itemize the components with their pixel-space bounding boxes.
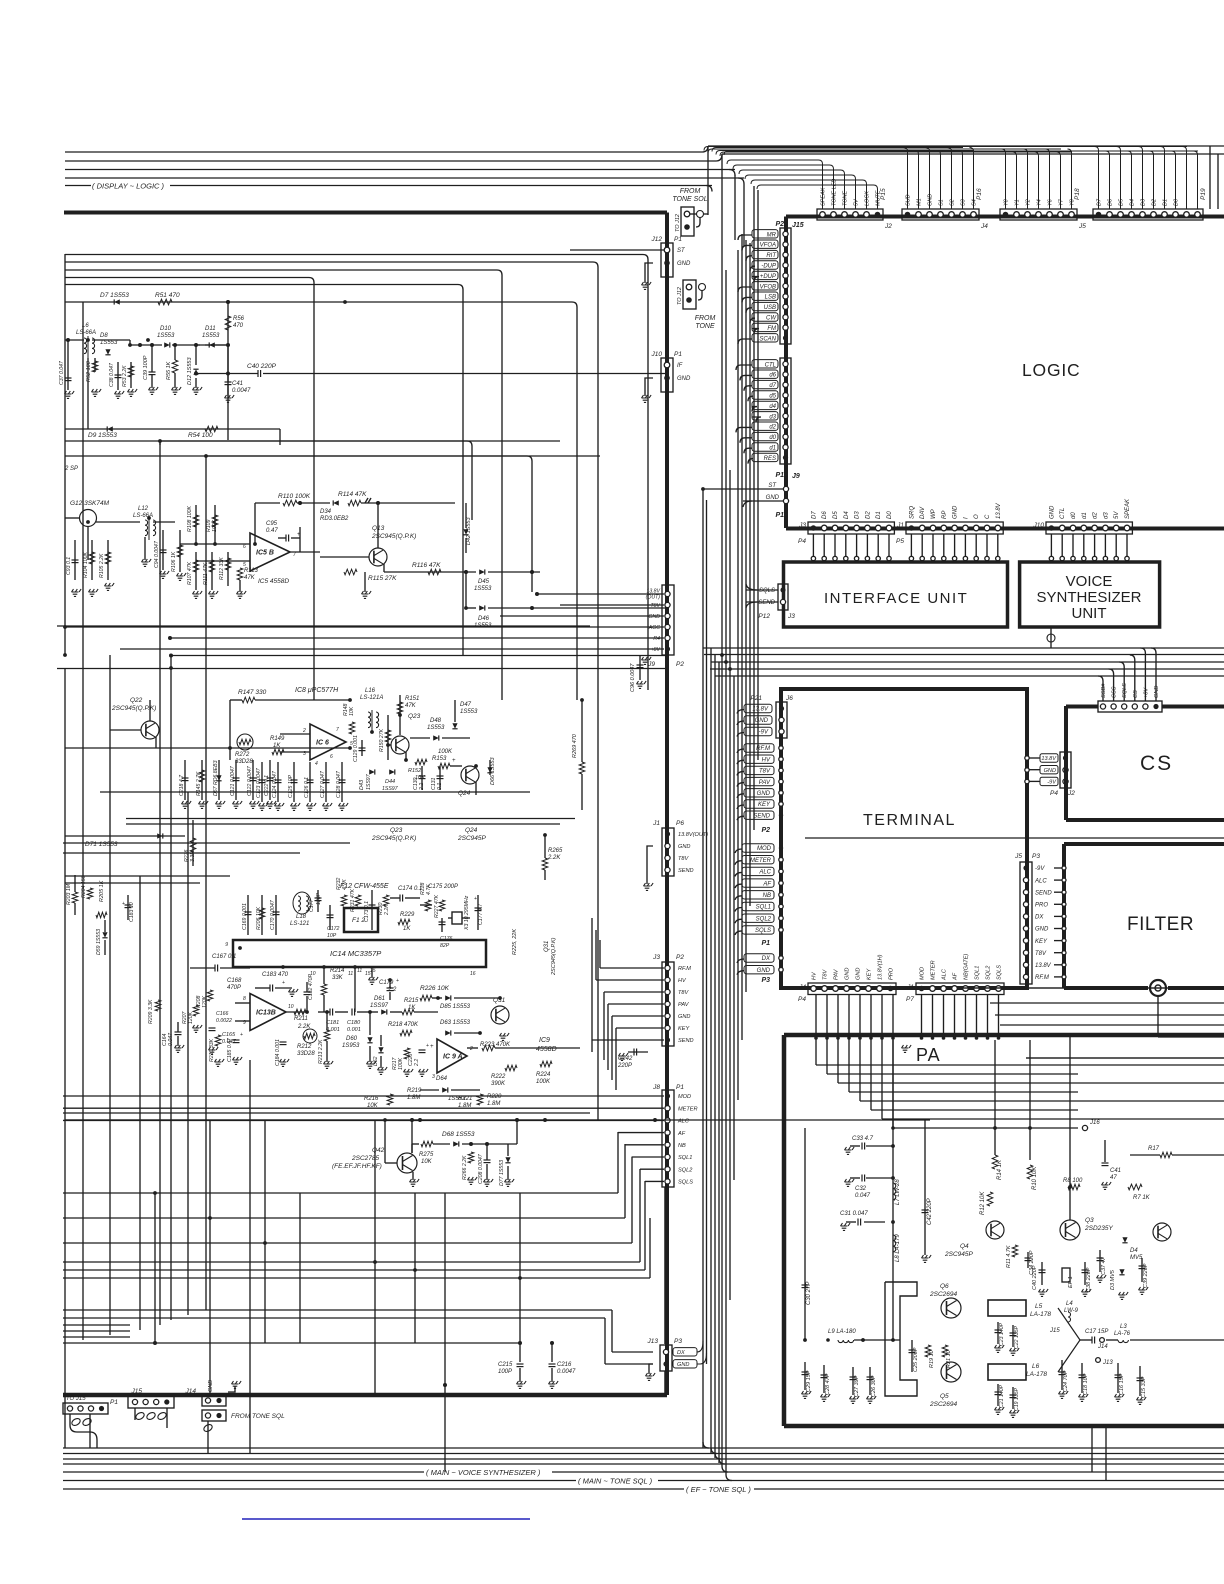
op-amp IC6 xyxy=(280,724,353,767)
svg-text:RF.M: RF.M xyxy=(1035,975,1049,981)
capacitor C38 220P xyxy=(1084,1262,1086,1285)
svg-text:IF: IF xyxy=(677,363,683,369)
svg-text:KEY: KEY xyxy=(758,802,771,808)
svg-text:GND: GND xyxy=(856,968,862,980)
wire left bus rows xyxy=(63,441,660,1120)
svg-text:C127 0.047: C127 0.047 xyxy=(320,770,326,798)
svg-text:2.2K: 2.2K xyxy=(384,904,390,916)
svg-text:HV: HV xyxy=(812,971,818,980)
resistor R275 10K xyxy=(419,1141,434,1165)
svg-text:1S553: 1S553 xyxy=(202,333,220,339)
inductor L8 LA-179 xyxy=(893,1235,896,1252)
C179 R226 D65 xyxy=(379,978,509,1040)
capacitor C31 0.047 xyxy=(858,1219,861,1226)
svg-text:GND: GND xyxy=(1049,505,1055,519)
resistor R116 47K xyxy=(412,562,441,575)
svg-text:J2: J2 xyxy=(884,223,892,230)
svg-text:J13: J13 xyxy=(1102,1360,1113,1366)
resistor R19 10 xyxy=(925,1345,931,1357)
svg-text:Y4: Y4 xyxy=(1037,199,1043,206)
svg-text:INTERFACE UNIT: INTERFACE UNIT xyxy=(824,590,968,607)
svg-text:P4: P4 xyxy=(798,996,806,1003)
svg-text:PRO: PRO xyxy=(1035,903,1048,909)
diode D10 1S553 xyxy=(130,326,200,348)
capacitor C41 47 xyxy=(1104,1140,1106,1162)
transistor G12 3SK74M xyxy=(65,500,140,560)
svg-text:J5: J5 xyxy=(1014,853,1022,860)
svg-text:D1: D1 xyxy=(1163,199,1169,206)
svg-text:P5: P5 xyxy=(896,538,904,545)
svg-text:SSB#: SSB# xyxy=(1101,683,1107,698)
inductor L7 LW-28 xyxy=(893,1183,896,1200)
svg-text:D2: D2 xyxy=(865,511,871,519)
diode D8 1S553 xyxy=(100,333,118,355)
svg-text:R19 10: R19 10 xyxy=(929,1349,935,1368)
svg-text:P4: P4 xyxy=(798,538,806,545)
TERMINAL unit border xyxy=(781,689,1027,988)
svg-text:( EF ~ TONE SQL ): ( EF ~ TONE SQL ) xyxy=(686,1485,751,1494)
resistor R150 27K xyxy=(379,715,391,760)
svg-text:R272: R272 xyxy=(235,752,250,758)
svg-text:D5: D5 xyxy=(833,511,839,519)
resistor R269 470 xyxy=(572,700,585,810)
svg-text:C167 0.1: C167 0.1 xyxy=(212,954,236,960)
svg-text:C15 33P: C15 33P xyxy=(1141,1376,1147,1398)
connector J10 strip bottom xyxy=(1033,498,1133,561)
capacitor C30 27P xyxy=(802,1285,809,1288)
inductor L16 LS-121A xyxy=(360,688,383,732)
diode D71 xyxy=(65,833,185,848)
svg-text:d5: d5 xyxy=(769,394,776,400)
svg-text:P3: P3 xyxy=(1032,853,1040,860)
svg-text:R56: R56 xyxy=(233,316,245,322)
svg-text:R147 330: R147 330 xyxy=(238,689,267,696)
svg-text:R224: R224 xyxy=(536,1072,551,1078)
connector J3 strip bottom xyxy=(798,511,894,561)
svg-text:L8 LA-179: L8 LA-179 xyxy=(895,1234,901,1262)
svg-text:J16: J16 xyxy=(1089,1120,1100,1126)
svg-text:d1: d1 xyxy=(1082,512,1088,519)
connector J15 data header xyxy=(736,358,791,464)
svg-text:1.8M: 1.8M xyxy=(407,1095,420,1101)
svg-text:3.3M: 3.3M xyxy=(190,850,196,862)
resistor R14 1K xyxy=(994,1040,996,1155)
svg-text:TO J12: TO J12 xyxy=(677,287,683,305)
svg-text:R111 47K: R111 47K xyxy=(203,562,209,585)
svg-text:C179: C179 xyxy=(379,980,394,986)
svg-text:C40 220P: C40 220P xyxy=(247,363,277,370)
svg-text:P2: P2 xyxy=(761,827,770,834)
transistor Q42 xyxy=(332,1118,419,1186)
svg-text:D77 1S553: D77 1S553 xyxy=(499,1160,505,1186)
svg-text:CTL: CTL xyxy=(1060,508,1066,519)
capacitor C42 220P xyxy=(924,1120,926,1255)
connector J16 xyxy=(1082,1125,1087,1130)
connector J2 strip xyxy=(727,160,892,230)
resistor R148 10K xyxy=(343,703,355,734)
svg-text:2SC945(Q.P.K): 2SC945(Q.P.K) xyxy=(371,835,416,842)
svg-text:MOD: MOD xyxy=(920,967,926,980)
svg-text:2SD235Y: 2SD235Y xyxy=(1084,1225,1113,1232)
capacitors C29 C28 C27 C26 xyxy=(804,1362,806,1390)
svg-text:X3 10.295MHz: X3 10.295MHz xyxy=(464,895,470,931)
svg-text:100K: 100K xyxy=(212,519,218,532)
svg-text:+DUP: +DUP xyxy=(760,274,776,280)
svg-text:C21 140P: C21 140P xyxy=(999,1384,1005,1408)
svg-text:C177 4.7: C177 4.7 xyxy=(478,903,484,925)
svg-text:P4: P4 xyxy=(1050,790,1058,797)
svg-text:P1: P1 xyxy=(110,1399,118,1406)
caps C130 C131 xyxy=(413,766,444,791)
svg-text:J4: J4 xyxy=(980,223,988,230)
svg-text:15: 15 xyxy=(370,968,376,974)
svg-text:D43: D43 xyxy=(359,779,365,790)
svg-text:VOICE: VOICE xyxy=(1066,573,1113,590)
svg-text:P3: P3 xyxy=(674,1338,682,1345)
svg-text:PAV: PAV xyxy=(834,968,840,980)
svg-text:33D28: 33D28 xyxy=(297,1051,315,1057)
op-amp IC5B xyxy=(180,533,320,585)
svg-text:C32: C32 xyxy=(855,1186,867,1192)
svg-text:SQLS: SQLS xyxy=(1122,683,1128,698)
svg-text:GND: GND xyxy=(677,1362,689,1368)
connector J- strip xyxy=(704,147,1207,221)
svg-text:J1: J1 xyxy=(896,522,904,529)
svg-text:C128 0.047: C128 0.047 xyxy=(336,770,342,798)
svg-text:2.2: 2.2 xyxy=(419,783,425,791)
svg-text:PAV: PAV xyxy=(759,780,771,786)
svg-text:2SC945(Q.P.K): 2SC945(Q.P.K) xyxy=(551,937,557,976)
svg-text:1S553: 1S553 xyxy=(474,586,492,592)
transistor Q2 xyxy=(1153,1223,1171,1241)
svg-text:J2: J2 xyxy=(1067,790,1075,797)
svg-text:J5: J5 xyxy=(1078,223,1086,230)
svg-text:R220: R220 xyxy=(487,1094,502,1100)
svg-text:LOGIC: LOGIC xyxy=(1022,360,1080,380)
svg-text:-9V: -9V xyxy=(1047,780,1057,786)
svg-text:d6: d6 xyxy=(769,373,776,379)
svg-text:ST: ST xyxy=(768,483,777,489)
svg-text:Q42: Q42 xyxy=(372,1147,385,1154)
svg-text:( MAIN ~ VOICE SYNTHESIZER ): ( MAIN ~ VOICE SYNTHESIZER ) xyxy=(426,1468,541,1477)
svg-text:R216: R216 xyxy=(364,1096,379,1102)
svg-text:-9V: -9V xyxy=(759,730,769,736)
svg-text:C242: C242 xyxy=(618,1056,633,1062)
svg-text:0.0022: 0.0022 xyxy=(216,1018,232,1024)
capacitor C40 220P xyxy=(196,363,667,377)
connector J4 P4 strip xyxy=(798,954,896,1003)
connector J5 strip xyxy=(708,149,1086,230)
svg-text:GND: GND xyxy=(677,261,691,267)
connector P1 flags xyxy=(735,844,783,947)
svg-text:4.7K: 4.7K xyxy=(342,879,348,890)
svg-text:P21: P21 xyxy=(750,695,762,702)
svg-text:10P: 10P xyxy=(327,933,337,939)
resistor R153 100K xyxy=(432,749,462,769)
svg-text:L12: L12 xyxy=(138,506,149,512)
svg-text:Q6: Q6 xyxy=(940,1283,949,1290)
svg-text:d2: d2 xyxy=(769,425,776,431)
svg-text:D0: D0 xyxy=(887,511,893,519)
connector J12 P1 xyxy=(570,236,691,289)
svg-text:IC14 MC3357P: IC14 MC3357P xyxy=(330,949,381,958)
svg-text:PAV: PAV xyxy=(678,1002,690,1008)
svg-text:R205 1K: R205 1K xyxy=(99,880,105,902)
svg-text:120P: 120P xyxy=(316,892,322,905)
wire PA feed xyxy=(892,1040,894,1340)
svg-text:D46: D46 xyxy=(478,616,490,622)
svg-text:C169 0.001: C169 0.001 xyxy=(242,903,248,930)
svg-text:+: + xyxy=(430,1044,434,1050)
svg-text:P6: P6 xyxy=(676,820,684,827)
svg-text:C181: C181 xyxy=(326,1020,339,1026)
svg-text:HV: HV xyxy=(678,978,687,984)
svg-text:Q5: Q5 xyxy=(940,1393,949,1400)
connector J15 P1 bottom xyxy=(110,1388,174,1428)
svg-text:D4: D4 xyxy=(844,511,850,519)
svg-text:R275: R275 xyxy=(419,1152,434,1158)
svg-text:11: 11 xyxy=(348,971,353,977)
svg-text:C17 15P: C17 15P xyxy=(1085,1329,1108,1335)
svg-text:R54 100: R54 100 xyxy=(188,432,213,439)
svg-text:L16: L16 xyxy=(365,688,376,694)
svg-text:LA-178: LA-178 xyxy=(1026,1371,1047,1378)
svg-text:C31 0.047: C31 0.047 xyxy=(840,1211,868,1217)
svg-text:D3: D3 xyxy=(855,511,861,519)
svg-text:TERMINAL: TERMINAL xyxy=(863,812,956,829)
svg-text:C177: C177 xyxy=(309,898,315,912)
transformer L12 LS-66A xyxy=(133,506,175,566)
svg-text:D67 RD6.8EB3: D67 RD6.8EB3 xyxy=(213,760,219,796)
svg-text:120K: 120K xyxy=(188,1011,194,1024)
svg-text:C218 4.7: C218 4.7 xyxy=(179,774,185,796)
wire row 441 456 xyxy=(160,441,532,592)
svg-text:CW: CW xyxy=(766,316,777,322)
diodes D43 D44 xyxy=(359,769,399,792)
svg-text:C123 0.0047: C123 0.0047 xyxy=(256,767,262,798)
component EP1 xyxy=(1062,1268,1070,1282)
svg-text:P1: P1 xyxy=(775,512,784,519)
svg-text:SQL2: SQL2 xyxy=(986,965,992,980)
svg-text:P1: P1 xyxy=(674,236,682,243)
svg-text:C176: C176 xyxy=(440,936,453,942)
svg-text:33K: 33K xyxy=(332,975,344,981)
svg-text:J3: J3 xyxy=(787,613,795,620)
svg-text:AF: AF xyxy=(953,972,959,981)
svg-text:13.8V: 13.8V xyxy=(752,707,769,713)
svg-text:D4: D4 xyxy=(1130,199,1136,206)
svg-text:1SS97: 1SS97 xyxy=(370,1003,389,1009)
svg-text:C25 200P: C25 200P xyxy=(913,1347,919,1372)
svg-text:R10 10K: R10 10K xyxy=(1032,1166,1038,1190)
svg-text:ST: ST xyxy=(677,248,686,254)
svg-text:TO J12: TO J12 xyxy=(675,214,681,232)
svg-text:IC9: IC9 xyxy=(539,1037,550,1044)
svg-text:TO J15: TO J15 xyxy=(66,1396,86,1402)
connector FROM TONE SOL top xyxy=(672,188,708,236)
svg-text:LW-9: LW-9 xyxy=(1064,1308,1079,1314)
svg-text:R112 33K: R112 33K xyxy=(219,557,225,580)
svg-text:IC 6: IC 6 xyxy=(316,740,329,747)
svg-text:R106 1K: R106 1K xyxy=(171,551,177,572)
resistor R10 10K xyxy=(1029,1040,1031,1160)
svg-text:R215: R215 xyxy=(404,998,419,1004)
svg-text:D11: D11 xyxy=(205,326,216,332)
svg-text:J10: J10 xyxy=(651,351,663,358)
svg-text:J4: J4 xyxy=(798,984,806,991)
wire left verticals xyxy=(65,254,250,1453)
svg-text:IC 9 A: IC 9 A xyxy=(443,1054,463,1061)
svg-text:1.8M: 1.8M xyxy=(458,1103,471,1109)
svg-text:SQL2: SQL2 xyxy=(756,916,772,922)
svg-text:C22 135P: C22 135P xyxy=(1014,1325,1020,1349)
svg-text:2 SP: 2 SP xyxy=(64,466,78,472)
svg-text:GND: GND xyxy=(677,376,691,382)
svg-text:J15: J15 xyxy=(131,1388,143,1395)
capacitor C38 0.047 xyxy=(109,362,124,398)
wire filter bottom bus xyxy=(990,1003,1224,1037)
connector CS strip xyxy=(1098,648,1162,712)
capacitor C34 220P xyxy=(1027,1252,1029,1268)
capacitor C94 0.0047 xyxy=(154,530,169,578)
svg-text:R206 10K: R206 10K xyxy=(256,906,262,930)
svg-text:10K: 10K xyxy=(421,1159,433,1165)
svg-text:0.001: 0.001 xyxy=(347,1027,361,1033)
svg-text:C180: C180 xyxy=(347,1020,361,1026)
svg-text:1SS97: 1SS97 xyxy=(366,773,372,790)
svg-text:C96 0.0047: C96 0.0047 xyxy=(630,663,636,692)
svg-text:AGC: AGC xyxy=(648,625,660,631)
wire top cluster joins xyxy=(88,340,228,445)
svg-text:SPEAK: SPEAK xyxy=(1125,498,1131,519)
svg-text:0.047: 0.047 xyxy=(168,1032,174,1046)
svg-text:1S553: 1S553 xyxy=(427,725,445,731)
filter F12 CFW-455E xyxy=(340,883,389,932)
svg-text:P19: P19 xyxy=(1200,188,1207,200)
capacitor C17 15P xyxy=(1080,1339,1092,1341)
svg-text:C129 0.001: C129 0.001 xyxy=(353,735,359,762)
svg-text:R21 10: R21 10 xyxy=(946,1349,952,1368)
svg-text:SQL1: SQL1 xyxy=(678,1155,692,1161)
svg-text:2: 2 xyxy=(302,728,306,734)
resistor R109 100K xyxy=(206,505,218,545)
svg-text:2.2K: 2.2K xyxy=(547,855,561,861)
svg-text:C38 0.047: C38 0.047 xyxy=(109,362,115,387)
svg-text:GND: GND xyxy=(757,791,771,797)
svg-text:CS: CS xyxy=(1140,752,1173,775)
svg-text:C126 0.1: C126 0.1 xyxy=(304,777,310,798)
resistor R115 27K xyxy=(344,569,397,582)
svg-text:J1: J1 xyxy=(906,984,914,991)
svg-text:R53 2.2K: R53 2.2K xyxy=(122,365,128,387)
svg-text:( DISPLAY ~ LOGIC ): ( DISPLAY ~ LOGIC ) xyxy=(92,182,165,191)
MAIN unit border xyxy=(63,213,667,1396)
svg-text:SQLS: SQLS xyxy=(755,928,771,934)
transformer L6 LS-66A xyxy=(65,323,130,358)
svg-text:L6: L6 xyxy=(82,323,89,329)
connector J4 strip xyxy=(712,148,988,231)
svg-text:R149: R149 xyxy=(270,736,285,742)
svg-text:GND: GND xyxy=(1154,686,1160,698)
svg-text:1S553: 1S553 xyxy=(460,709,478,715)
svg-text:D71 1S553: D71 1S553 xyxy=(85,841,118,848)
svg-text:C183 470: C183 470 xyxy=(262,972,289,978)
svg-text:R212: R212 xyxy=(297,1044,312,1050)
svg-text:GND: GND xyxy=(766,495,780,501)
svg-text:ALC: ALC xyxy=(758,870,771,876)
svg-text:+: + xyxy=(122,901,125,907)
resistor R52 100 xyxy=(86,358,101,396)
svg-text:SQL1: SQL1 xyxy=(975,966,981,980)
svg-text:C170 0.0047: C170 0.0047 xyxy=(270,899,276,930)
svg-text:RIT: RIT xyxy=(766,253,777,259)
svg-text:GND: GND xyxy=(678,1014,690,1020)
capacitor C40 220P xyxy=(1041,1262,1043,1285)
connector J1 P7 strip xyxy=(906,954,1004,1003)
svg-text:C121 0.0047: C121 0.0047 xyxy=(230,765,236,796)
svg-text:R14 1K: R14 1K xyxy=(997,1159,1003,1180)
svg-text:P12: P12 xyxy=(758,613,770,620)
resistor R53 2.2K xyxy=(122,362,137,396)
svg-text:C16 15P: C16 15P xyxy=(1119,1373,1125,1395)
svg-text:D7: D7 xyxy=(811,511,817,519)
svg-text:C37 47: C37 47 xyxy=(1101,1256,1107,1275)
svg-text:L9 LA-180: L9 LA-180 xyxy=(828,1329,856,1335)
svg-text:1.8M: 1.8M xyxy=(487,1101,500,1107)
svg-text:C173 0.1: C173 0.1 xyxy=(364,901,370,922)
svg-text:13.8V: 13.8V xyxy=(1041,756,1057,762)
svg-text:J3: J3 xyxy=(652,954,660,961)
svg-text:J9: J9 xyxy=(792,473,800,480)
svg-text:D1: D1 xyxy=(876,511,882,519)
transistor Q13 2SC945 xyxy=(320,501,455,598)
svg-text:R12 10K: R12 10K xyxy=(980,1191,986,1215)
svg-text:Q24: Q24 xyxy=(465,827,478,834)
svg-text:+8V: +8V xyxy=(1143,687,1149,698)
svg-text:RF.M: RF.M xyxy=(756,746,770,752)
CS unit border xyxy=(1066,706,1224,820)
svg-text:C39 100P: C39 100P xyxy=(143,355,149,380)
svg-text:LS-66A: LS-66A xyxy=(76,330,96,336)
svg-text:R4: R4 xyxy=(653,636,660,642)
svg-text:RES: RES xyxy=(764,456,776,462)
svg-text:R17: R17 xyxy=(1148,1146,1160,1152)
svg-text:DX: DX xyxy=(1035,915,1044,921)
svg-text:( MAIN ~ TONE SQL ): ( MAIN ~ TONE SQL ) xyxy=(578,1477,653,1486)
resistor R112 33K xyxy=(219,552,231,586)
svg-text:d3: d3 xyxy=(769,414,776,420)
svg-text:D7: D7 xyxy=(1097,198,1103,206)
svg-text:+: + xyxy=(282,980,285,986)
svg-text:d3: d3 xyxy=(1103,512,1109,519)
antenna jack xyxy=(1150,980,1166,1037)
svg-text:O: O xyxy=(974,514,980,519)
connector J3 P2 xyxy=(592,918,694,1090)
svg-text:T8V: T8V xyxy=(823,968,829,980)
svg-text:470P: 470P xyxy=(227,985,241,991)
resistor R152 10K xyxy=(408,759,427,781)
D61 R215 chain xyxy=(342,996,438,1076)
wire bus rows 252-302 xyxy=(65,255,648,1121)
svg-text:R145 2.7K: R145 2.7K xyxy=(196,771,202,796)
svg-text:C122 0.0047: C122 0.0047 xyxy=(247,765,253,796)
svg-text:R11 4.7K: R11 4.7K xyxy=(1006,1245,1012,1268)
svg-text:C185 0.47: C185 0.47 xyxy=(227,1037,233,1062)
svg-text:SQLS: SQLS xyxy=(759,588,775,594)
svg-text:R227 47K: R227 47K xyxy=(434,894,440,918)
svg-text:R221: R221 xyxy=(458,1096,472,1102)
svg-text:0.47: 0.47 xyxy=(266,528,278,534)
